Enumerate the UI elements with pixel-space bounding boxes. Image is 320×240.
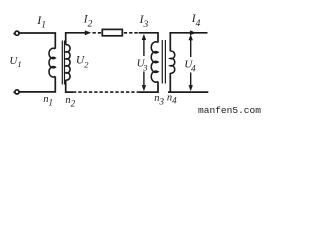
- transformer T2 core: [162, 40, 165, 84]
- terminal: top input terminal: [13, 31, 19, 35]
- transformer T2 primary winding (n3): [151, 42, 158, 82]
- wire: top input terminal to T1 primary top: [19, 33, 55, 49]
- transformer T1 core: [62, 41, 64, 85]
- current arrow I4: [190, 30, 196, 35]
- voltage arrow U4 (upper shaft, points up): [189, 34, 193, 57]
- svg-text:manfen5.com: manfen5.com: [198, 105, 261, 116]
- voltage arrow U3 (upper shaft, points up): [142, 34, 146, 56]
- wire: T2 secondary bottom lead to output: [168, 73, 208, 92]
- wire: T1 primary bottom to bottom input terminal: [19, 76, 55, 92]
- voltage arrow U4 (lower shaft, points down): [189, 73, 193, 92]
- wire: dashed bottom return T1 secondary to T2 primary: [73, 91, 140, 93]
- wire: T1 secondary top to I2 arrow: [66, 33, 86, 45]
- current arrow I2: [85, 30, 91, 35]
- wire: T2 primary top lead: [139, 33, 158, 43]
- transformer T1 secondary winding (n2): [66, 45, 70, 80]
- wire: T1 secondary bottom lead: [66, 80, 73, 92]
- wire: T2 secondary top lead to output: [170, 33, 207, 52]
- wire: T2 primary bottom lead: [140, 82, 159, 93]
- transformer T1 primary winding (n1): [49, 48, 55, 77]
- wire: dashed segment I2 arrow to resistor: [93, 32, 102, 34]
- voltage arrow U3 (lower shaft, points down): [142, 72, 146, 92]
- wire: dashed segment resistor to T2 primary top: [124, 32, 139, 34]
- transformer T2 secondary winding (n4): [170, 51, 174, 73]
- resistor R (series box): [102, 29, 122, 35]
- terminal: bottom input terminal: [13, 90, 19, 94]
